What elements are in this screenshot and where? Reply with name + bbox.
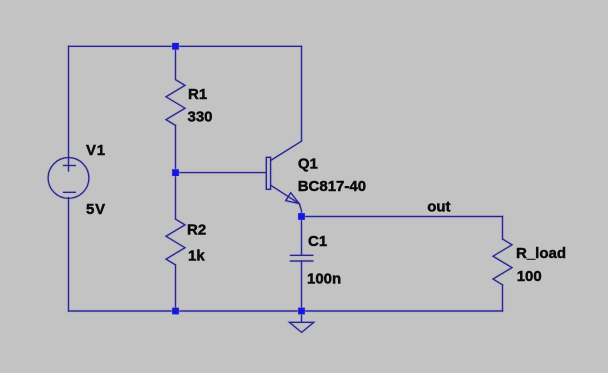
- svg-text:100: 100: [517, 268, 542, 285]
- resistor R2 body: [166, 219, 185, 265]
- wire R_load top lead: [502, 217, 504, 240]
- svg-text:BC817-40: BC817-40: [298, 178, 366, 195]
- svg-text:R1: R1: [188, 86, 207, 103]
- wire R2 bottom lead: [175, 265, 177, 311]
- wire R1 top lead: [175, 46, 177, 79]
- V1 plus sign: [64, 165, 76, 167]
- capacitor C1 bottom plate: [291, 260, 313, 262]
- node junction R2 / bottom rail: [172, 308, 179, 315]
- wire top rail: [69, 45, 302, 47]
- svg-text:1k: 1k: [188, 247, 205, 264]
- capacitor C1 top plate: [291, 254, 313, 256]
- transistor Q1 base bar: [266, 157, 270, 189]
- node junction ground / bottom rail: [298, 308, 305, 315]
- node junction base node: [172, 169, 179, 176]
- svg-text:R_load: R_load: [516, 245, 566, 262]
- svg-text:Q1: Q1: [298, 155, 318, 172]
- svg-text:C1: C1: [308, 233, 327, 250]
- wire collector to top rail: [301, 46, 303, 141]
- transistor Q1 emitter stroke: [271, 185, 302, 216]
- wire left rail upper (to V1 plus): [68, 46, 70, 171]
- svg-text:100n: 100n: [307, 271, 341, 288]
- wire ground stub: [301, 311, 303, 322]
- ground symbol: [289, 322, 313, 332]
- transistor Q1 emitter arrow: [286, 193, 300, 204]
- V1 minus sign: [64, 191, 76, 193]
- resistor R1 body: [166, 80, 185, 126]
- wire out net (emitter node to R_load): [302, 216, 503, 218]
- svg-text:out: out: [427, 199, 450, 216]
- wire base node to Q1 base: [176, 172, 267, 174]
- resistor R_load body: [493, 239, 512, 285]
- wire R_load bottom lead: [502, 285, 504, 311]
- node junction emitter / out: [298, 213, 305, 220]
- svg-text:V1: V1: [86, 142, 106, 159]
- wire R2 top lead: [175, 173, 177, 220]
- wire left rail lower (V1 bottom to ground rail): [68, 198, 70, 312]
- wire bottom rail: [69, 310, 503, 312]
- transistor Q1 collector stroke: [271, 141, 302, 160]
- svg-text:5V: 5V: [86, 201, 106, 218]
- wire C1 bottom lead: [301, 261, 303, 311]
- svg-text:330: 330: [188, 108, 213, 125]
- node junction top rail / R1: [172, 43, 179, 50]
- svg-text:R2: R2: [187, 221, 206, 238]
- wire C1 top lead: [301, 217, 303, 256]
- wire R1 bottom lead to base node: [175, 125, 177, 172]
- voltage source V1 circle: [48, 158, 89, 199]
